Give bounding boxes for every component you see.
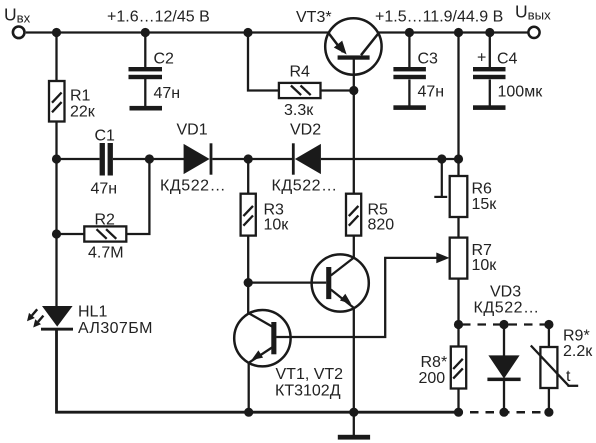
diode VD2 [292, 143, 321, 174]
svg-text:+1.5…11.9/44.9 В: +1.5…11.9/44.9 В [375, 9, 503, 26]
wire R8 top [457, 325, 459, 347]
svg-text:200: 200 [419, 370, 446, 387]
svg-text:КД522…: КД522… [272, 178, 338, 195]
wire C2 bottom [144, 79, 146, 106]
wire R1 top [55, 33, 57, 82]
transistor VT1 base bar [271, 322, 276, 354]
wire VD3 bottom [503, 380, 505, 412]
svg-text:КД522…: КД522… [474, 300, 540, 317]
resistor R7 [450, 238, 468, 279]
resistor R3 [241, 194, 256, 236]
wire R7 bottom [457, 279, 459, 325]
wire C4 bottom [489, 80, 491, 106]
wire R6 to R7 [457, 217, 459, 238]
svg-text:15к: 15к [472, 196, 498, 213]
wire VT2 emitter down [353, 308, 355, 413]
wire bottom rail [57, 331, 459, 413]
svg-text:VD1: VD1 [177, 122, 208, 139]
svg-text:22к: 22к [70, 104, 96, 121]
wire VT2 collector to R5 [353, 236, 355, 258]
wire top rail left [26, 31, 329, 33]
resistor R2 [84, 226, 126, 241]
LED HL1 triangle [42, 306, 73, 327]
chassis bar under C4 [473, 105, 506, 110]
chassis bar under C2 [130, 106, 163, 111]
wire chassis stub [441, 159, 443, 197]
svg-text:4.7М: 4.7М [88, 245, 124, 262]
transistor VT3 emitter arrow [334, 41, 347, 55]
wire R1 bottom [55, 122, 57, 160]
svg-text:КД522…: КД522… [160, 178, 226, 195]
transistor VT3 circle [325, 18, 381, 74]
wire VD1 anode [149, 158, 184, 160]
wire ground stub [353, 412, 355, 435]
svg-text:C2: C2 [154, 51, 175, 68]
svg-text:HL1: HL1 [78, 304, 107, 321]
wire R2 left [57, 233, 85, 235]
capacitor C1 [100, 143, 113, 176]
svg-text:3.3к: 3.3к [284, 102, 314, 119]
svg-text:47н: 47н [418, 84, 445, 101]
svg-text:C1: C1 [95, 128, 116, 145]
wire R4 right [321, 89, 354, 91]
wire VT3 base [353, 60, 355, 91]
svg-text:VT3*: VT3* [296, 9, 332, 26]
svg-text:47н: 47н [91, 181, 118, 198]
wire C1 left [57, 158, 100, 160]
svg-text:VD2: VD2 [290, 122, 321, 139]
svg-text:t: t [566, 368, 571, 385]
wire R3 top [247, 159, 249, 194]
svg-text:КТ3102Д: КТ3102Д [275, 383, 341, 400]
wire VD2 anode right [321, 158, 459, 160]
wire VD3 top [503, 325, 505, 356]
svg-text:VD3: VD3 [490, 284, 521, 301]
terminal Uvyx output [528, 27, 539, 38]
resistor R6 [450, 176, 468, 217]
wire VT3 base to R5 [353, 91, 355, 194]
wire dashed bottom row [459, 411, 550, 414]
diode VD1 [184, 143, 213, 174]
svg-text:+1.6…12/45 В: +1.6…12/45 В [107, 9, 210, 26]
transistor VT2 collector line [331, 258, 354, 276]
svg-text:R6: R6 [472, 181, 493, 198]
terminal Uvx input [13, 27, 25, 39]
wire VD1 cathode to node [212, 158, 292, 160]
wire VT2 base [248, 281, 326, 283]
svg-text:R1: R1 [70, 88, 91, 105]
wire R9 top [548, 325, 550, 348]
transistor VT1 circle [234, 310, 290, 366]
wire dashed top row [459, 323, 550, 325]
wire top rail right [378, 31, 528, 33]
capacitor C3 [393, 67, 426, 79]
thermistor R9 [531, 346, 578, 389]
potentiometer R7 wiper arrow [436, 253, 449, 264]
transistor VT2 circle [312, 254, 369, 311]
transistor VT2 emitter arrowhead [340, 294, 351, 304]
svg-text:АЛ307БМ: АЛ307БМ [78, 320, 153, 337]
LED HL1 emission arrow 2 [33, 316, 43, 328]
resistor R4 [279, 83, 321, 98]
wire R8 bottom [457, 389, 459, 413]
diode VD3 [487, 355, 520, 381]
transistor VT3 collector line [361, 33, 379, 55]
svg-text:C3: C3 [418, 51, 439, 68]
svg-text:R9*: R9* [563, 328, 590, 345]
wire C3 top [408, 33, 410, 68]
wire R2 right riser [126, 159, 149, 234]
wire R6 feed column [457, 33, 459, 177]
resistor R5 [346, 194, 361, 236]
resistor R8 [451, 347, 466, 389]
capacitor C2 [129, 67, 163, 79]
svg-text:47н: 47н [154, 85, 181, 102]
svg-text:R4: R4 [290, 64, 311, 81]
svg-text:R2: R2 [95, 212, 116, 229]
svg-text:C4: C4 [497, 51, 518, 68]
transistor VT2 emitter line [331, 290, 354, 309]
transistor VT3 emitter line [329, 33, 344, 52]
wire VT1 emitter down [248, 362, 250, 412]
wire C3 bottom [408, 80, 410, 106]
capacitor C4 [473, 67, 506, 79]
transistor VT1 emitter line [249, 348, 272, 363]
wire C1 right [113, 158, 149, 160]
svg-text:820: 820 [368, 217, 395, 234]
LED HL1 cathode bar [41, 328, 73, 331]
resistor R1 [49, 81, 65, 122]
LED HL1 emission arrow 1 [27, 309, 37, 321]
svg-text:10к: 10к [472, 257, 498, 274]
wire R3 bottom to VT1 collector [247, 236, 249, 314]
svg-text:+: + [477, 50, 486, 67]
wire C2 top [144, 33, 146, 68]
wire R7 wiper line [276, 258, 437, 337]
transistor VT1 emitter arrowhead [252, 350, 264, 360]
svg-text:VT1, VT2: VT1, VT2 [276, 366, 344, 383]
wire C4 top [489, 33, 491, 68]
transistor VT1 collector line [248, 313, 272, 327]
svg-text:100мк: 100мк [498, 84, 544, 101]
ground symbol [338, 435, 370, 440]
wire R4 left riser [248, 33, 279, 91]
wire R9 bottom [548, 388, 550, 412]
transistor VT3 base bar [338, 55, 370, 59]
svg-text:R8*: R8* [421, 354, 448, 371]
chassis bar near R6 [434, 196, 447, 198]
svg-text:2.2к: 2.2к [563, 343, 593, 360]
chassis bar under C3 [393, 105, 426, 110]
transistor VT2 base bar [326, 267, 331, 299]
junction node dots [52, 28, 554, 417]
svg-text:10к: 10к [264, 217, 290, 234]
wire left column mid [55, 159, 57, 306]
